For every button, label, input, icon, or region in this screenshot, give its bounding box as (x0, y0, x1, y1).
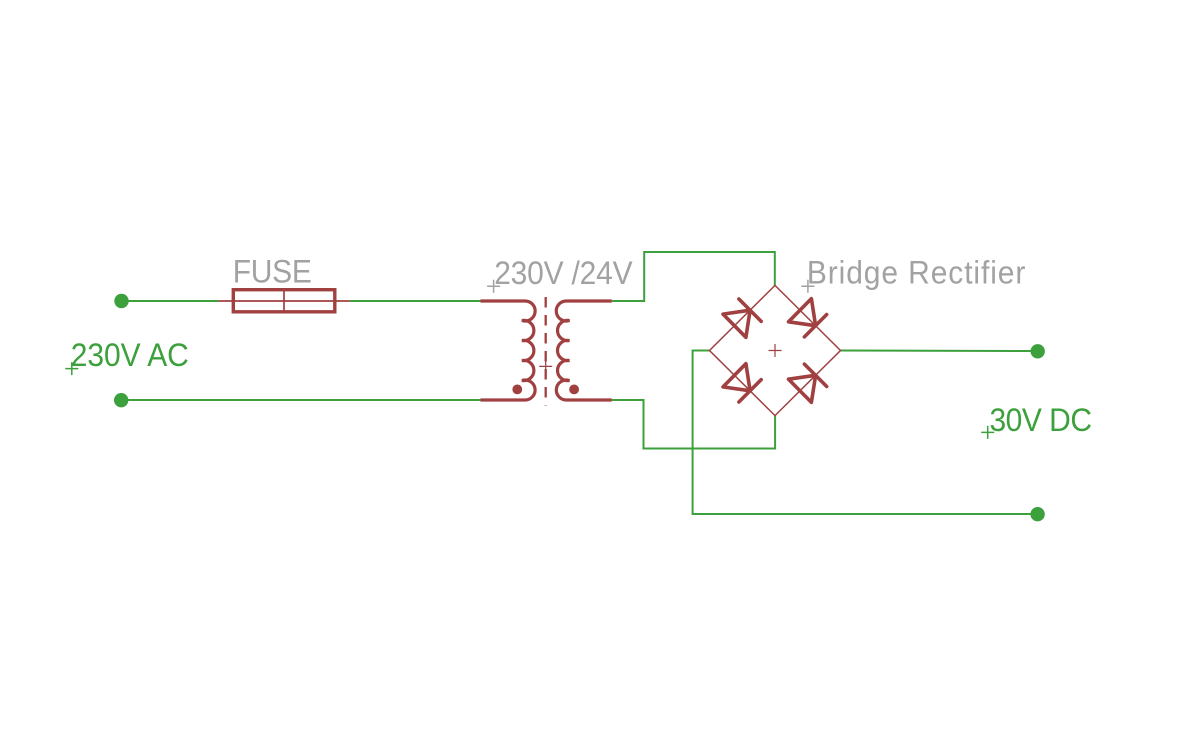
transformer T1 primary winding (481, 301, 536, 400)
wire bridge right vertex to DC plus terminal (841, 350, 1031, 353)
transformer T1 core dashed line (545, 297, 547, 406)
node 230V AC bottom terminal (114, 393, 128, 407)
transformer T1 primary phase dot (512, 385, 522, 395)
diode D4 lower-right (789, 364, 827, 402)
label 230V AC origin cross (65, 362, 78, 375)
wire fuse to transformer primary top (350, 300, 481, 302)
fuse F1 body (233, 290, 334, 312)
bridge rectifier diamond outline (710, 285, 841, 415)
transformer T1 origin cross (539, 360, 552, 373)
svg-text:30V DC: 30V DC (990, 402, 1092, 438)
wire transformer secondary top to bridge top vertex (612, 252, 775, 301)
svg-text:Bridge Rectifier: Bridge Rectifier (807, 254, 1026, 290)
label 230V /24V origin cross (487, 280, 500, 293)
bridge rectifier origin cross (769, 344, 782, 357)
diode D1 upper-left (723, 299, 761, 337)
node 30V DC minus terminal (1030, 507, 1044, 521)
svg-text:FUSE: FUSE (233, 254, 312, 290)
wire bottom-left terminal to transformer primary bottom (121, 399, 480, 401)
fuse F1 lead and midline (218, 300, 349, 302)
diode D2 upper-right (789, 299, 827, 337)
diode D3 lower-left (723, 364, 761, 402)
wire transformer secondary bottom to bridge bottom vertex (612, 400, 775, 449)
transformer T1 secondary phase dot (569, 385, 579, 395)
node 30V DC plus terminal (1031, 344, 1045, 358)
fuse F1 center mark (283, 291, 285, 311)
label 30V DC origin cross (981, 426, 994, 439)
svg-text:230V AC: 230V AC (71, 337, 189, 373)
node 230V AC top terminal (114, 294, 128, 308)
wire top-left terminal to fuse (122, 300, 219, 302)
transformer T1 secondary winding (556, 301, 612, 400)
wire bridge left vertex to DC minus terminal (693, 351, 1031, 515)
svg-text:230V /24V: 230V /24V (494, 255, 633, 291)
label Bridge Rectifier origin cross (801, 280, 814, 293)
